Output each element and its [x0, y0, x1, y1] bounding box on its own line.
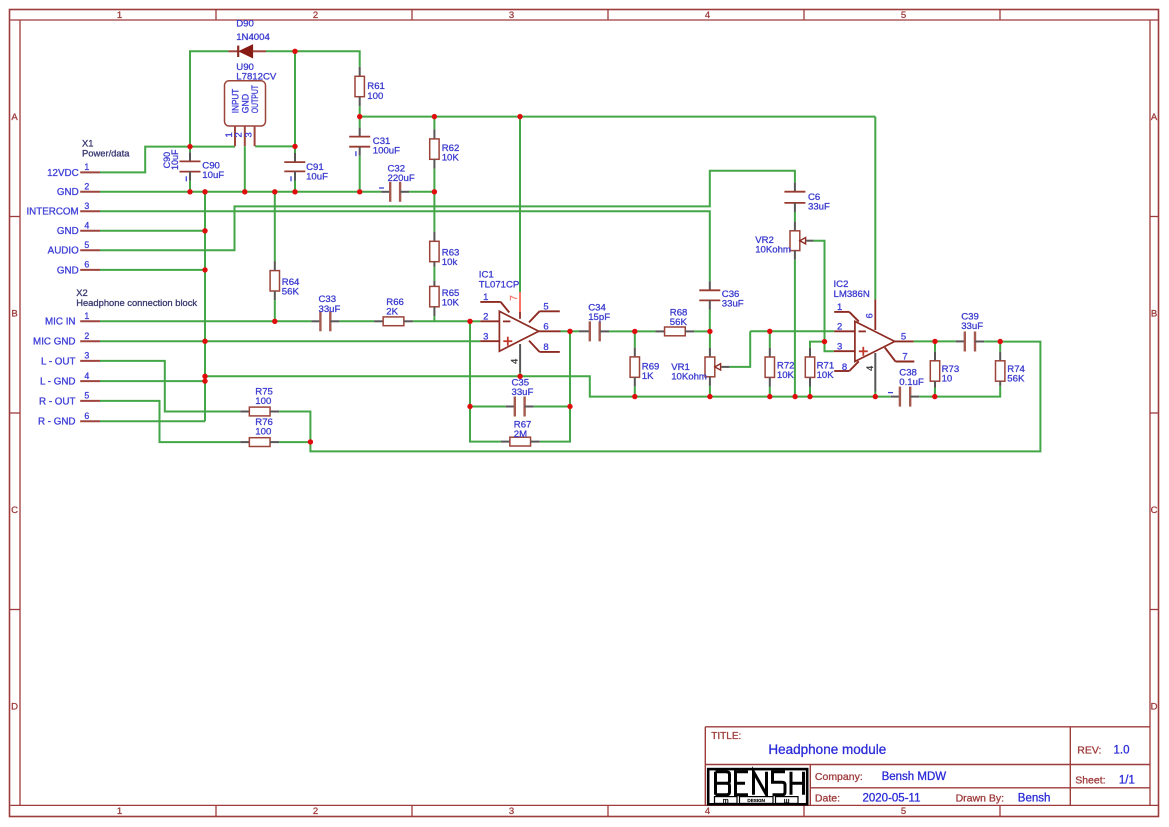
capacitor C32 plates	[390, 182, 400, 202]
regulator U90 pin 3	[254, 126, 256, 146]
wire pin2 line to R72	[769, 331, 771, 348]
svg-text:Sheet:: Sheet:	[1075, 775, 1105, 787]
op-amp IC2 pin 4 number	[865, 366, 876, 371]
wire L - GND	[100, 380, 205, 382]
op-amp IC1 label	[479, 270, 520, 291]
resistor R62 lead bottom	[433, 159, 435, 169]
resistor R66 body	[383, 317, 404, 326]
svg-text:Headphone module: Headphone module	[768, 742, 886, 757]
potentiometer VR2 lead bottom	[794, 251, 796, 260]
svg-text:DESIGN: DESIGN	[747, 798, 765, 803]
junction C34/R69 node	[632, 329, 637, 334]
regulator U90 pin 1	[234, 126, 236, 146]
junction IC1 output	[567, 329, 572, 334]
resistor R69 body	[630, 357, 639, 377]
svg-text:6: 6	[543, 322, 548, 333]
op-amp IC2 pin 1 number	[837, 302, 842, 313]
svg-text:8: 8	[543, 342, 548, 353]
capacitor C34 plates	[590, 321, 600, 341]
svg-text:10uF: 10uF	[306, 172, 328, 183]
net label GND (X1 pin 4)	[57, 226, 79, 237]
connector X2 pin 5 number	[84, 391, 89, 401]
svg-text:GND: GND	[57, 265, 79, 276]
wire VR1 wiper net to IC2 pin2	[750, 330, 834, 332]
wire R72 to gnd	[769, 387, 771, 397]
wire U90 pin2 to ground rail	[244, 146, 246, 192]
regulator U90 pin names	[231, 85, 261, 114]
title block Date label	[815, 793, 840, 805]
op-amp IC1 pin 6 number	[543, 322, 548, 333]
svg-text:1: 1	[84, 162, 89, 172]
wire R - GND	[100, 420, 205, 422]
svg-text:2: 2	[483, 312, 488, 323]
svg-text:6: 6	[84, 260, 89, 270]
op-amp IC2 pin 2 lead	[834, 330, 855, 332]
svg-text:B: B	[11, 309, 17, 320]
svg-text:6: 6	[84, 411, 89, 421]
op-amp IC1 minus sign	[503, 320, 510, 322]
resistor R67 lead left	[501, 441, 510, 443]
junction C35 right	[567, 404, 572, 409]
svg-text:1N4004: 1N4004	[236, 32, 270, 43]
capacitor C38 plates	[900, 387, 910, 407]
wire input node to U90 pin1	[190, 146, 235, 148]
wire rail to R62	[433, 117, 435, 130]
resistor R72 body	[765, 357, 774, 377]
junction C91 gnd	[292, 189, 297, 194]
resistor R74 lead bottom	[999, 381, 1001, 386]
svg-text:3: 3	[483, 332, 488, 343]
connector X1 pin 4 number	[84, 221, 89, 231]
connector X2 pin 6 number	[84, 411, 89, 421]
wire output node vertical	[294, 51, 296, 146]
svg-text:12VDC: 12VDC	[47, 168, 79, 179]
capacitor C39 plates	[965, 332, 975, 352]
svg-text:AUDIO: AUDIO	[48, 246, 79, 257]
wire C32 to R62/R63 node	[409, 191, 434, 193]
frame row letters	[11, 112, 1158, 713]
wire +12V to IC1 pin7	[519, 117, 521, 292]
op-amp IC1 pin 2 lead	[480, 320, 499, 322]
potentiometer VR2 wiper	[800, 238, 814, 244]
connector X2 pin 3 lead	[80, 360, 100, 362]
junction R69 gnd	[632, 394, 637, 399]
op-amp IC1 pin 2 number	[483, 312, 488, 323]
potentiometer VR1 wiper	[715, 364, 730, 370]
connector X1 pin 1 lead	[80, 171, 100, 173]
title block Sheet label	[1075, 775, 1105, 787]
title block Date value	[863, 793, 921, 805]
op-amp IC2 pin 3 number	[837, 342, 842, 353]
resistor R66 label	[386, 297, 404, 318]
wire C39 to output node	[984, 341, 1000, 343]
capacitor C31 lead bottom	[359, 147, 361, 156]
net label INTERCOM (X1 pin 3)	[26, 207, 78, 218]
svg-text:100: 100	[367, 91, 383, 102]
svg-text:2M: 2M	[514, 429, 527, 440]
title block DrawnBy label	[956, 793, 1004, 805]
potentiometer VR2 label	[755, 235, 791, 256]
title block frame	[705, 727, 1150, 806]
svg-text:56K: 56K	[282, 287, 300, 298]
capacitor C39 label	[961, 311, 983, 332]
resistor R76 lead left	[240, 441, 249, 443]
capacitor C6 plates	[784, 192, 805, 203]
title block REV value	[1114, 744, 1130, 756]
svg-text:4: 4	[84, 371, 89, 381]
resistor R69 lead bottom	[634, 377, 636, 386]
junction X1 pin6 gnd	[202, 267, 207, 272]
resistor R65 lead top	[433, 281, 435, 286]
wire R61 to +12V rail	[359, 106, 361, 116]
connector X1 pin 2 lead	[80, 191, 100, 193]
junction IC2 output	[932, 339, 937, 344]
svg-text:100uF: 100uF	[373, 146, 400, 157]
connector X1 pin 4 lead	[80, 230, 100, 232]
net label GND (X1 pin 2)	[57, 187, 79, 198]
title block DrawnBy value	[1018, 793, 1051, 805]
svg-text:2: 2	[84, 331, 89, 341]
wire C6 to VR2	[794, 212, 796, 222]
capacitor C36 label	[722, 289, 744, 310]
wire IC2 output	[914, 340, 935, 342]
resistor R62 body	[430, 139, 439, 159]
op-amp IC2 pin 6 number	[865, 313, 876, 318]
svg-text:4: 4	[705, 10, 710, 21]
connector X2 pin 1 number	[84, 311, 89, 321]
wire IC1 pin4 to gnd	[519, 373, 521, 377]
regulator U90 body	[225, 81, 266, 126]
junction IC2 pin4 gnd	[873, 394, 878, 399]
wire gnd rail to R74	[935, 386, 1000, 397]
op-amp IC2 plus sign	[859, 347, 868, 356]
op-amp IC2 minus sign	[859, 330, 866, 332]
svg-text:L - OUT: L - OUT	[41, 356, 75, 367]
svg-text:33uF: 33uF	[722, 299, 744, 310]
capacitor C38 lead left	[891, 396, 900, 398]
capacitor C35 lead left	[506, 406, 515, 408]
junction D90/R61 top node	[292, 49, 297, 54]
connector X2 pin 1 lead	[80, 320, 100, 322]
resistor R61 lead top	[359, 67, 361, 77]
capacitor C6 lead top	[794, 183, 796, 192]
svg-text:REV:: REV:	[1077, 744, 1101, 756]
resistor R76 label	[255, 417, 273, 438]
svg-text:7: 7	[902, 352, 907, 363]
wire 12VDC pin1 to input node	[100, 147, 190, 173]
op-amp IC1 pin 1 stub	[480, 302, 509, 313]
junction C31 gnd	[357, 189, 362, 194]
title block Company label	[815, 771, 863, 783]
company logo BENSH	[708, 769, 807, 805]
resistor R68 lead right	[685, 330, 694, 332]
diode D90 body	[239, 45, 252, 58]
resistor R63 lead bottom	[433, 262, 435, 267]
resistor R62 lead top	[433, 129, 435, 139]
resistor R71 lead bottom	[809, 377, 811, 386]
net label R - OUT (X2 pin 5)	[39, 396, 75, 407]
svg-text:L - GND: L - GND	[40, 377, 76, 388]
svg-text:GND: GND	[57, 187, 79, 198]
capacitor C35 plates	[515, 397, 525, 417]
junction L - GND	[202, 378, 207, 383]
svg-text:2: 2	[313, 806, 318, 817]
junction R61 / +12V rail	[357, 114, 362, 119]
wire rail to C31	[359, 117, 361, 128]
capacitor C32 polarity mark	[379, 187, 384, 189]
capacitor C90 label	[202, 161, 224, 182]
svg-text:R - OUT: R - OUT	[39, 396, 75, 407]
svg-text:6: 6	[865, 313, 876, 318]
svg-text:2K: 2K	[386, 307, 398, 318]
svg-text:33uF: 33uF	[319, 304, 341, 315]
junction input node	[187, 144, 192, 149]
op-amp IC1 pin 7 lead	[519, 292, 521, 319]
capacitor C34 lead right	[600, 330, 609, 332]
wire D90 cathode to output node top	[266, 50, 295, 52]
svg-text:10K: 10K	[817, 370, 835, 381]
resistor R68 label	[670, 307, 688, 328]
resistor R64 lead bottom	[274, 291, 276, 300]
junction gnd/R64 branch	[272, 189, 277, 194]
resistor R68 lead left	[655, 330, 664, 332]
wire GND X1 pin4	[100, 230, 205, 232]
svg-text:10K: 10K	[442, 152, 460, 163]
wire output node to C91	[294, 146, 296, 153]
potentiometer VR1 lead bottom	[709, 377, 711, 386]
capacitor C6 lead bottom	[794, 203, 796, 212]
svg-text:10Kohm: 10Kohm	[671, 372, 707, 383]
net label AUDIO (X1 pin 5)	[48, 246, 79, 257]
svg-text:100: 100	[255, 427, 271, 438]
diode D90 lead left	[228, 50, 238, 52]
op-amp IC2 label	[834, 279, 870, 300]
resistor R69 lead top	[634, 348, 636, 357]
capacitor C33 lead left	[311, 320, 320, 322]
svg-text:4: 4	[865, 366, 876, 371]
svg-text:LM386N: LM386N	[834, 289, 870, 300]
resistor R75 lead left	[240, 411, 249, 413]
svg-text:33uF: 33uF	[512, 387, 534, 398]
op-amp IC2 pin 6 lead	[874, 299, 876, 330]
svg-text:3: 3	[509, 10, 514, 21]
wire R63 to R65	[433, 267, 435, 281]
resistor R63 body	[430, 241, 439, 261]
wire C34 to R68 node	[609, 330, 635, 332]
potentiometer VR1 label	[671, 362, 707, 383]
capacitor C33 label	[319, 294, 341, 315]
junction R72 top	[767, 329, 772, 334]
capacitor C91 lead top	[294, 153, 296, 162]
resistor R72 lead bottom	[769, 377, 771, 386]
op-amp IC2 pin 5 lead	[895, 340, 914, 342]
svg-text:D: D	[1151, 702, 1158, 713]
wire node to IC2 pin3	[825, 342, 834, 352]
svg-text:5: 5	[901, 806, 906, 817]
connector X1 pin 3 number	[84, 201, 89, 211]
resistor R73 lead bottom	[934, 381, 936, 387]
svg-text:GND: GND	[57, 226, 79, 237]
op-amp IC1 pin 1 number	[483, 292, 488, 303]
resistor R65 lead bottom	[433, 307, 435, 316]
capacitor C90 polarity mark	[185, 176, 187, 181]
capacitor C34 lead left	[579, 330, 590, 332]
resistor R72 lead top	[769, 348, 771, 357]
wire VR2 wiper to IC2 pin3 node	[814, 241, 825, 342]
net label L - GND (X2 pin 4)	[40, 377, 76, 388]
svg-text:7: 7	[509, 295, 520, 301]
connector X1 pin 2 number	[84, 182, 89, 192]
potentiometer VR1 body	[705, 357, 715, 377]
resistor R66 lead right	[404, 320, 413, 322]
op-amp IC1 plus sign	[503, 337, 512, 346]
wire X2 ground vertical	[204, 192, 206, 421]
capacitor C36 lead top	[709, 281, 711, 290]
op-amp IC2 pin 8 stub	[834, 361, 859, 371]
capacitor C38 label	[899, 368, 924, 389]
capacitor C35 label	[512, 377, 534, 398]
capacitor C6 label	[808, 192, 830, 213]
wire C38 to R73 gnd node	[919, 396, 935, 398]
wire node to R71	[810, 342, 825, 348]
connector X2 label	[76, 287, 197, 308]
resistor R74 label	[1007, 364, 1025, 385]
svg-text:3: 3	[837, 342, 842, 353]
wire VR1 to gnd	[709, 386, 711, 397]
capacitor C91 lead bottom	[294, 171, 296, 180]
op-amp IC1 pin 5 number	[543, 302, 548, 313]
diode D90 cathode bar	[237, 46, 239, 57]
junction R72 gnd	[767, 394, 772, 399]
junction U90 gnd	[242, 189, 247, 194]
wire AUDIO net	[100, 171, 795, 251]
resistor R75 lead right	[270, 411, 279, 413]
junction gnd/X2 branch	[202, 189, 207, 194]
junction R62/R63 node	[432, 189, 437, 194]
op-amp IC1 pin 3 lead	[480, 340, 499, 342]
resistor R61 lead bottom	[359, 97, 361, 107]
svg-text:5: 5	[543, 302, 548, 313]
wire R65 to MIC IN line	[433, 316, 435, 321]
svg-text:OUTPUT: OUTPUT	[250, 85, 260, 114]
potentiometer VR2 body	[790, 231, 800, 251]
resistor R69 label	[642, 361, 660, 382]
wire node to R63	[433, 192, 435, 232]
capacitor C38 lead right	[910, 396, 919, 398]
connector X2 pin 4 number	[84, 371, 89, 381]
svg-text:1: 1	[117, 806, 122, 817]
wire U90 pin3 to output node	[255, 145, 295, 147]
connector X2 pin 6 lead	[80, 420, 100, 422]
capacitor C39 lead right	[975, 341, 984, 343]
regulator U90 pin 2	[244, 126, 246, 146]
svg-text:5: 5	[901, 331, 906, 342]
capacitor C34 label	[588, 302, 610, 323]
op-amp IC1 body	[499, 311, 538, 351]
wire feedback bus	[310, 342, 1040, 452]
resistor R64 body	[270, 271, 279, 291]
resistor R71 body	[805, 357, 814, 377]
capacitor C31 plates	[349, 137, 370, 147]
junction VR1 gnd	[707, 394, 712, 399]
junction IC2 pin3 node	[822, 339, 827, 344]
svg-text:1K: 1K	[642, 371, 654, 382]
wire IC1 out to C34	[570, 330, 579, 332]
op-amp IC1 pin 6 lead	[539, 330, 561, 332]
op-amp IC1 pin 3 number	[483, 332, 488, 343]
svg-text:R - GND: R - GND	[38, 417, 76, 428]
svg-text:2: 2	[313, 10, 318, 21]
capacitor C31 polarity mark	[355, 151, 357, 156]
capacitor C33 lead right	[330, 320, 339, 322]
svg-text:C: C	[1151, 505, 1158, 516]
resistor R65 body	[430, 286, 439, 306]
wire node to R69	[634, 331, 636, 347]
svg-text:10: 10	[942, 374, 953, 385]
regulator U90 pin numbers	[223, 132, 254, 137]
junction IC1 pin4 gnd	[517, 374, 522, 379]
junction speaker output node	[998, 339, 1003, 344]
wire L - OUT to R75	[100, 361, 240, 412]
capacitor C91 plates	[284, 162, 305, 171]
connector X2 pin 3 number	[84, 351, 89, 361]
wire MIC GND to IC1 pin3	[205, 340, 480, 342]
svg-text:4: 4	[509, 359, 520, 364]
junction rail/R62	[432, 114, 437, 119]
svg-text:3: 3	[84, 201, 89, 211]
op-amp IC2 pin 2 number	[837, 322, 842, 333]
wire C35 left segment	[470, 406, 506, 408]
junction C35 left	[467, 404, 472, 409]
svg-text:56K: 56K	[1007, 374, 1025, 385]
wire GND rail from X1 pin2	[100, 191, 381, 193]
svg-text:MIC IN: MIC IN	[45, 317, 75, 328]
wire pin2 node down	[470, 321, 501, 441]
svg-text:4: 4	[705, 806, 710, 817]
op-amp IC2 pin 7 number	[902, 352, 907, 363]
wire IC2 pin4 to gnd	[874, 392, 876, 397]
resistor R71 label	[817, 360, 835, 381]
resistor R61 body	[355, 76, 364, 96]
resistor R75 body	[249, 407, 270, 416]
wire MIC IN to C33	[100, 320, 311, 322]
svg-text:10Kohm: 10Kohm	[755, 245, 791, 256]
wire R68 to VR1 node	[694, 330, 710, 332]
op-amp IC1 pin 4 number	[509, 359, 520, 364]
resistor R67 label	[514, 419, 532, 440]
connector X2 pin 2 number	[84, 331, 89, 341]
svg-text:D90: D90	[236, 18, 254, 29]
connector X1 pin 5 lead	[80, 249, 100, 251]
capacitor C35 lead right	[525, 406, 534, 408]
svg-text:L7812CV: L7812CV	[236, 72, 277, 83]
wire R76 to sum node	[279, 441, 310, 443]
capacitor C90 plates	[180, 161, 201, 171]
svg-text:3: 3	[242, 132, 253, 137]
capacitor C91 polarity mark	[290, 176, 292, 181]
svg-text:2: 2	[84, 182, 89, 192]
resistor R67 body	[510, 437, 531, 446]
op-amp IC1 pin 5 stub	[529, 311, 560, 322]
wire IC1 output	[561, 330, 571, 332]
resistor R71 lead top	[809, 348, 811, 357]
title block TITLE label	[711, 731, 741, 742]
svg-text:Drawn By:: Drawn By:	[956, 793, 1004, 805]
resistor R61 label	[367, 81, 385, 102]
net label R - GND (X2 pin 6)	[38, 417, 76, 428]
svg-text:5: 5	[901, 10, 906, 21]
svg-text:TITLE:: TITLE:	[711, 731, 741, 742]
